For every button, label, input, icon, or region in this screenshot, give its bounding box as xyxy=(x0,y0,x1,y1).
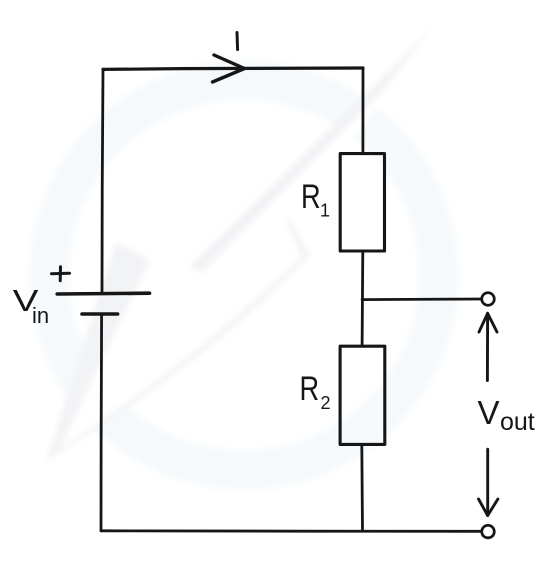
battery long plate xyxy=(57,291,149,295)
svg-text:2: 2 xyxy=(321,393,331,413)
label R1 xyxy=(301,177,321,216)
label R2 xyxy=(300,369,320,408)
plus sign xyxy=(52,272,70,275)
wire left lower xyxy=(100,315,103,531)
node bottom terminal xyxy=(482,525,495,538)
wire right upper xyxy=(361,68,364,153)
svg-text:1: 1 xyxy=(320,201,330,221)
label Vin xyxy=(13,283,39,318)
wire bottom horizontal xyxy=(101,529,481,532)
current arrow xyxy=(214,55,245,69)
battery short plate xyxy=(82,312,118,316)
vout arrow down xyxy=(486,449,489,512)
vout arrow up xyxy=(486,316,489,381)
wire R2 to bottom xyxy=(360,445,364,531)
wire left upper xyxy=(102,69,103,292)
wire junction to top terminal xyxy=(362,298,481,301)
svg-text:V: V xyxy=(478,394,500,431)
svg-text:out: out xyxy=(500,408,535,436)
svg-text:R: R xyxy=(300,369,320,408)
svg-text:R: R xyxy=(301,177,321,216)
resistor R2 xyxy=(340,346,385,444)
svg-text:in: in xyxy=(32,303,49,328)
node top terminal xyxy=(482,293,495,306)
wire top horizontal xyxy=(103,68,363,69)
wire R1 to R2 xyxy=(361,251,364,346)
label I xyxy=(236,33,240,50)
resistor R1 xyxy=(340,154,384,251)
